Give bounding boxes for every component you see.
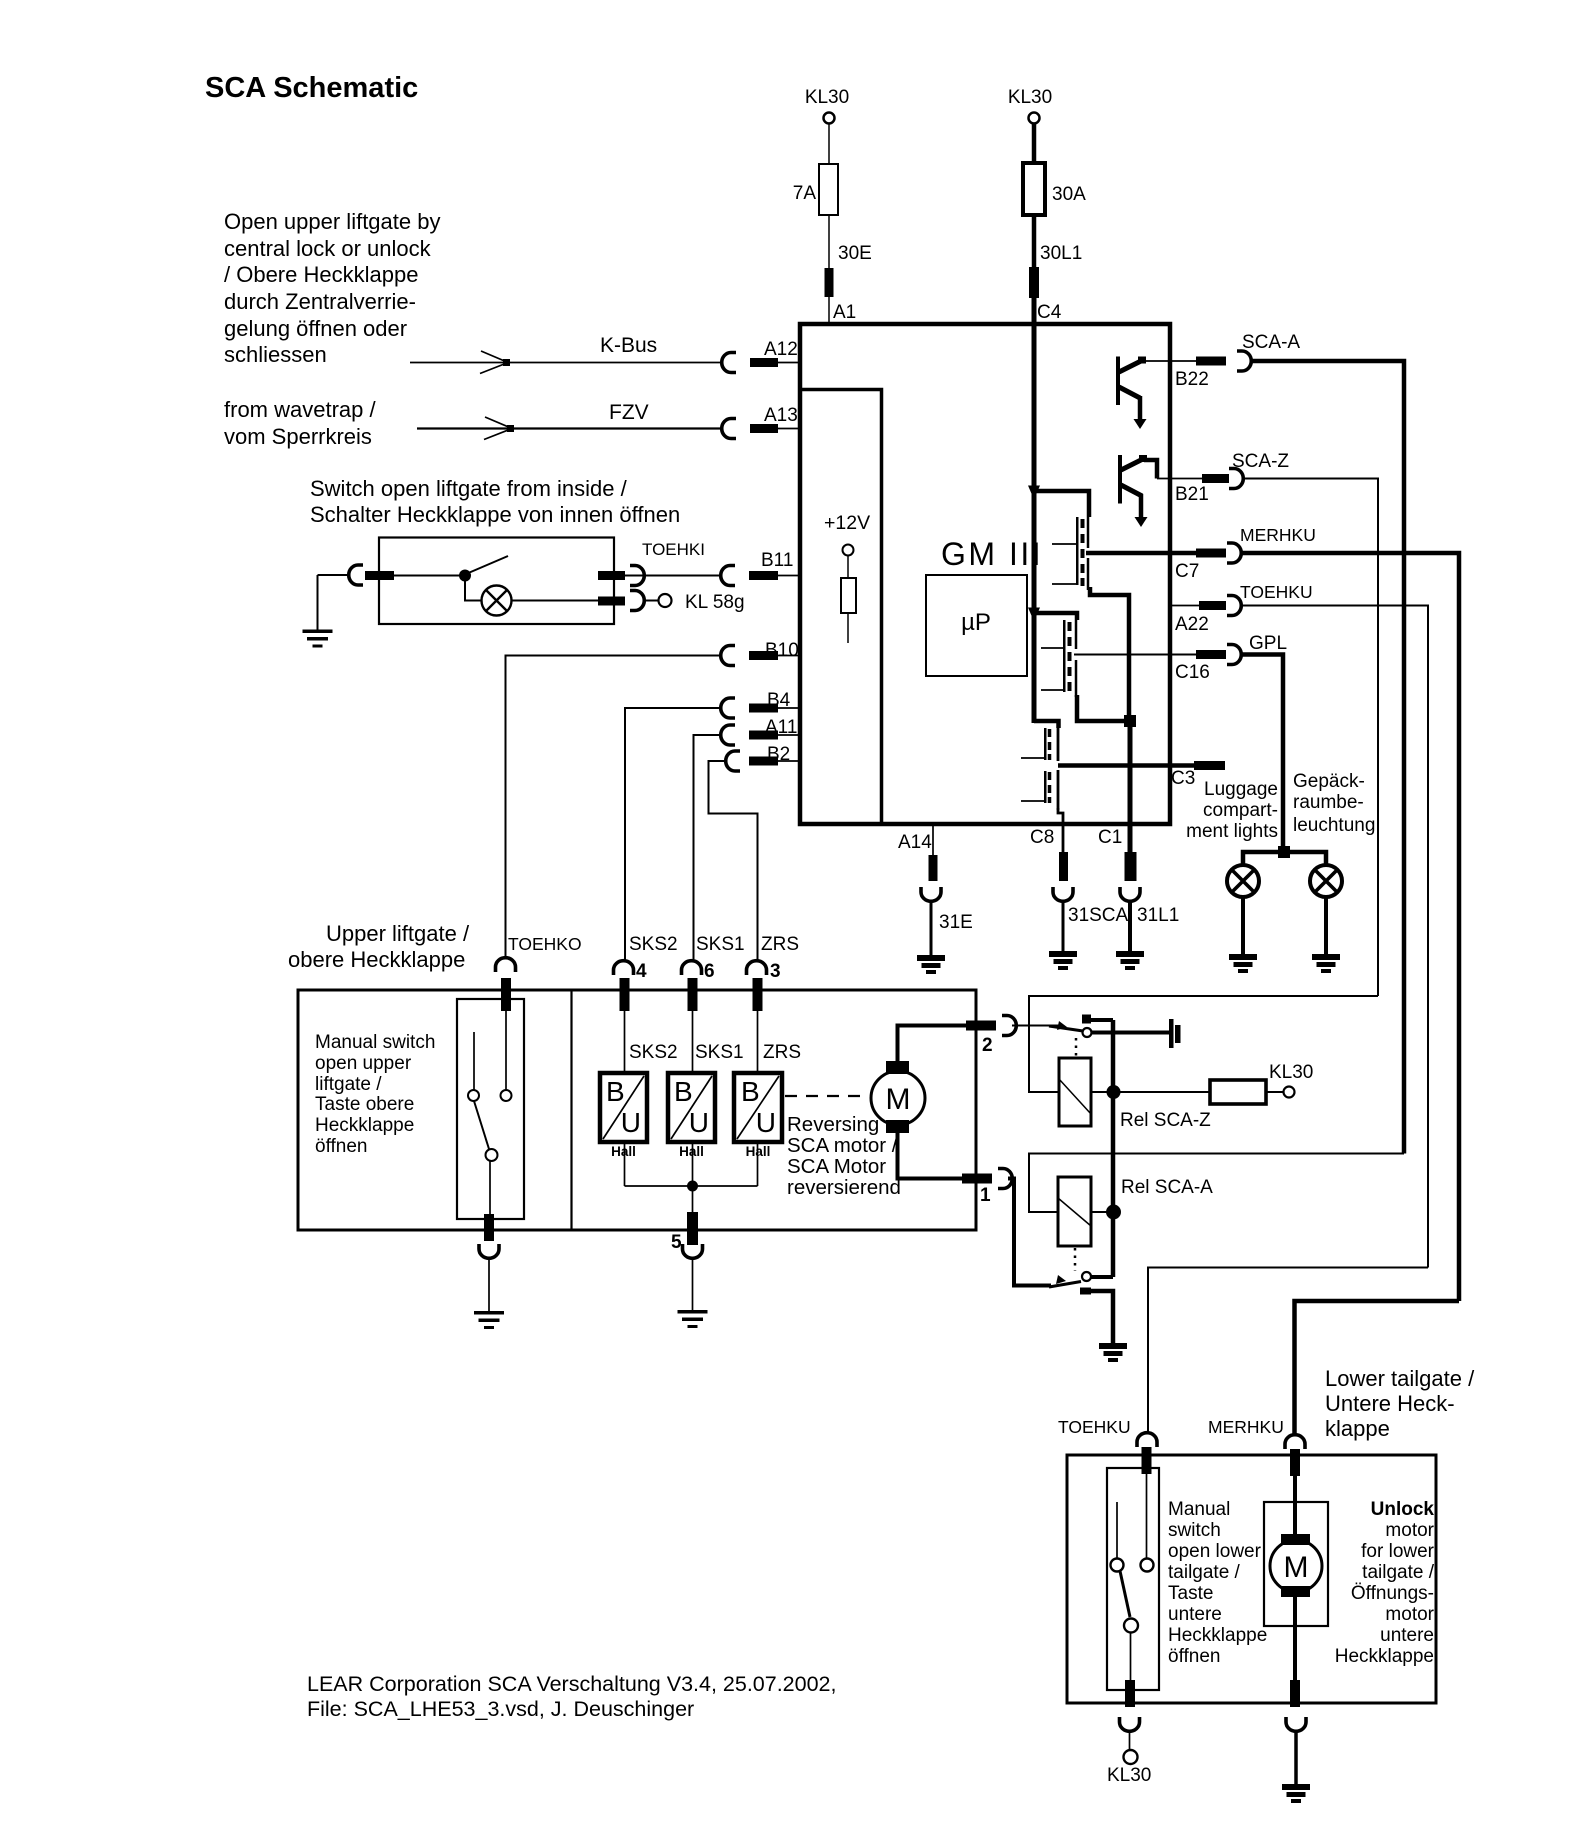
wire MERHKU (1241, 553, 1459, 1301)
pin 5 (692, 1186, 694, 1212)
svg-text:from wavetrap /: from wavetrap / (224, 397, 376, 422)
resistor R1 (841, 578, 856, 613)
svg-text:Reversing: Reversing (787, 1113, 879, 1136)
connector B11 (721, 566, 735, 586)
svg-text:SKS2: SKS2 (629, 934, 678, 955)
node (1106, 1205, 1121, 1220)
svg-text:U: U (621, 1107, 641, 1138)
wire GPL out (1074, 654, 1196, 656)
pin A22 / connector TOEHKU (1199, 601, 1226, 610)
svg-text:Rel SCA-A: Rel SCA-A (1121, 1177, 1213, 1198)
wire B4 to SKS2 (625, 708, 721, 961)
svg-text:obere Heckklappe: obere Heckklappe (288, 947, 465, 972)
connector under switch (479, 1244, 499, 1258)
svg-text:U: U (756, 1107, 776, 1138)
svg-text:MERHKU: MERHKU (1208, 1417, 1284, 1437)
wire K-Bus (410, 362, 722, 364)
svg-text:raumbe-: raumbe- (1293, 792, 1364, 813)
pin 2 (966, 1021, 996, 1031)
connector 31E (921, 887, 941, 901)
pin TOEHKI (598, 571, 625, 580)
svg-text:B: B (741, 1076, 760, 1107)
svg-text:öffnen: öffnen (315, 1136, 367, 1157)
svg-text:A1: A1 (833, 302, 856, 323)
svg-text:Taste: Taste (1168, 1583, 1213, 1604)
svg-text:öffnen: öffnen (1168, 1646, 1220, 1667)
wire B10 to TOEHKO (506, 656, 722, 958)
wire SCA-Z (1243, 479, 1378, 997)
wire coil K1 to bus (1091, 1091, 1113, 1093)
svg-text:A14: A14 (898, 832, 932, 853)
ground 31L1 (1128, 900, 1132, 951)
svg-text:30E: 30E (838, 243, 872, 264)
node (1107, 1085, 1121, 1099)
fuse KL30 (relay supply) (1210, 1080, 1266, 1104)
pin C4 (1029, 267, 1039, 298)
wire TOEHKU (1241, 606, 1428, 1268)
wire motor to pin (1293, 1597, 1297, 1680)
connector B2 (726, 751, 740, 771)
svg-text:B22: B22 (1175, 369, 1209, 390)
svg-text:LEAR Corporation SCA Verschalt: LEAR Corporation SCA Verschaltung V3.4, … (307, 1672, 836, 1696)
mosfet driver Q6 (C8) (1044, 771, 1047, 803)
connector 31L1 (1120, 887, 1140, 901)
connector 1 (998, 1169, 1012, 1189)
svg-text:Manual switch: Manual switch (315, 1032, 435, 1053)
svg-text:31SCA: 31SCA (1068, 905, 1129, 926)
svg-text:SCA-Z: SCA-Z (1232, 451, 1289, 472)
wire hall common bus (624, 1142, 626, 1186)
pin B22 / connector SCA-A (1196, 357, 1226, 366)
svg-text:klappe: klappe (1325, 1416, 1390, 1441)
svg-text:compart-: compart- (1203, 800, 1278, 821)
wire relay bus vertical (1111, 1020, 1116, 1277)
svg-text:B4: B4 (767, 690, 791, 711)
wire GPL (1241, 655, 1283, 847)
pin C7 / connector MERHKU (1196, 549, 1226, 558)
svg-text:ZRS: ZRS (763, 1042, 801, 1063)
transistor Q2 (B21) (1118, 455, 1122, 504)
svg-text:for lower: for lower (1361, 1541, 1435, 1562)
svg-text:+12V: +12V (824, 512, 870, 534)
svg-text:central lock or unlock: central lock or unlock (224, 236, 432, 261)
svg-text:Hall: Hall (611, 1144, 636, 1159)
svg-text:KL30: KL30 (1269, 1062, 1313, 1083)
manual switch box (457, 999, 524, 1219)
svg-text:SCA motor /: SCA motor / (787, 1134, 898, 1157)
svg-text:reversierend: reversierend (787, 1176, 901, 1199)
wire FZV (417, 427, 722, 429)
svg-text:switch: switch (1168, 1520, 1221, 1541)
connector B10 (721, 646, 735, 666)
dashed link ZRS to motor (785, 1095, 866, 1097)
ground lamp L2 (1241, 897, 1245, 954)
wire SCA-Z to coil K1 (1029, 996, 1378, 1092)
switch S1 blade (466, 556, 508, 574)
pin 1 (962, 1174, 992, 1184)
ground (switch circuit) (317, 575, 319, 630)
svg-text:KL30: KL30 (805, 87, 849, 108)
svg-text:SKS1: SKS1 (695, 1042, 744, 1063)
wire from connector 1 down (1008, 1179, 1051, 1286)
svg-text:Switch open liftgate from insi: Switch open liftgate from inside / (310, 476, 628, 501)
node junction arrow 1 (1028, 486, 1040, 500)
svg-text:open upper: open upper (315, 1053, 412, 1074)
fuse 30A (1023, 163, 1045, 215)
wire (318, 574, 350, 576)
svg-text:TOEHKU: TOEHKU (1058, 1417, 1131, 1437)
ground 31SCA (1062, 900, 1065, 951)
svg-text:motor: motor (1385, 1604, 1434, 1625)
svg-text:ZRS: ZRS (761, 934, 799, 955)
dotted actuator link K1 (1075, 1038, 1078, 1058)
transistor Q1 (B22) (1116, 357, 1120, 406)
wire MERHKU down leg (1295, 1301, 1460, 1434)
svg-text:Manual: Manual (1168, 1499, 1230, 1520)
svg-text:K-Bus: K-Bus (600, 334, 657, 357)
wire to lamps (1243, 852, 1326, 864)
node C1 junction (1124, 715, 1136, 727)
motor box (lower) (1264, 1502, 1328, 1626)
pin C16 / connector GPL (1196, 650, 1226, 659)
svg-text:C4: C4 (1037, 302, 1062, 323)
wire KL30 feed inside box (1032, 298, 1037, 723)
wire source down (1090, 587, 1129, 721)
motor M1 (reversing SCA motor) (871, 1071, 925, 1125)
wire C4 branch to lower driver (1034, 721, 1059, 728)
svg-text:30L1: 30L1 (1040, 243, 1082, 264)
pin KL58g (598, 597, 625, 606)
ground 5 (692, 1257, 694, 1310)
svg-text:A12: A12 (764, 339, 798, 360)
relay coil K1 (Rel SCA-Z) (1059, 1058, 1091, 1126)
wire motor top to pin 2 (898, 1026, 967, 1063)
svg-text:Rel SCA-Z: Rel SCA-Z (1120, 1110, 1211, 1131)
svg-text:SCA Schematic: SCA Schematic (205, 72, 418, 104)
fuse 7A (819, 164, 838, 215)
connector B4 (721, 698, 735, 718)
wire SCA-A (1251, 361, 1404, 1154)
svg-text:schliessen: schliessen (224, 342, 327, 367)
svg-text:A11: A11 (765, 717, 797, 738)
hall sensor SKS1 (668, 1073, 715, 1142)
connector motor ground (1286, 1717, 1306, 1731)
divider (570, 990, 572, 1230)
wire from connector 2 to relay contact (1012, 1025, 1061, 1027)
svg-text:Open upper liftgate by: Open upper liftgate by (224, 209, 440, 234)
svg-text:5: 5 (671, 1232, 682, 1253)
wire SCA-A to coil K2 (1029, 1154, 1404, 1213)
wire TOEHKU down leg (1148, 1268, 1428, 1433)
node bus junction (687, 1181, 698, 1192)
svg-text:SKS1: SKS1 (696, 934, 745, 955)
svg-text:M: M (1284, 1551, 1309, 1584)
lamp L3 (1310, 865, 1342, 897)
svg-text:tailgate /: tailgate / (1168, 1562, 1241, 1583)
relay K2 contact blade (1049, 1282, 1081, 1288)
hall sensor ZRS (734, 1073, 782, 1142)
svg-text:SCA Motor: SCA Motor (787, 1155, 886, 1178)
wire A11 to SKS1 (694, 735, 722, 961)
relay K1 contact blade (1049, 1026, 1083, 1031)
node lamp junction (1278, 846, 1290, 858)
net 30L1 (1032, 215, 1037, 267)
wire to B11 (644, 575, 721, 577)
svg-text:B2: B2 (767, 744, 790, 765)
svg-text:Heckklappe: Heckklappe (1168, 1625, 1267, 1646)
svg-text:gelung öffnen oder: gelung öffnen oder (224, 316, 407, 341)
arrow (484, 417, 512, 440)
svg-text:Hall: Hall (679, 1144, 704, 1159)
svg-text:GM III: GM III (941, 536, 1043, 572)
mosfet driver Q3 (MERHKU) (1076, 517, 1079, 585)
wire to fuse KL30 (1113, 1091, 1210, 1093)
hall sensor SKS2 (600, 1073, 647, 1142)
pin A1 (825, 268, 834, 297)
svg-text:KL30: KL30 (1008, 87, 1052, 108)
contact NC stub (1080, 1288, 1091, 1295)
svg-text:B11: B11 (761, 550, 793, 571)
svg-text:durch Zentralverrie-: durch Zentralverrie- (224, 289, 416, 314)
wire MERHKU pin to motor (1293, 1476, 1297, 1535)
svg-text:SCA-A: SCA-A (1242, 332, 1300, 353)
svg-text:4: 4 (636, 961, 647, 982)
wire source down to node (1077, 695, 1125, 721)
svg-text:Untere Heck-: Untere Heck- (1325, 1391, 1455, 1416)
svg-text:C16: C16 (1175, 662, 1210, 683)
wire coil K2 to bus (1091, 1211, 1113, 1213)
wire (828, 124, 830, 164)
terminator body connection (1169, 1019, 1174, 1048)
wire A22 lead (1171, 605, 1199, 607)
svg-text:leuchtung: leuchtung (1293, 815, 1375, 836)
pin B21 / connector SCA-Z (1202, 474, 1229, 483)
connector 31SCA (1053, 887, 1073, 901)
wire motor bottom to pin 1 (898, 1133, 963, 1179)
wire B2 to ZRS (709, 761, 758, 961)
svg-text:SKS2: SKS2 (629, 1042, 678, 1063)
inner supply box (800, 390, 882, 825)
svg-text:Unlock: Unlock (1371, 1499, 1435, 1520)
svg-text:File: SCA_LHE53_3.vsd, J. Deus: File: SCA_LHE53_3.vsd, J. Deuschinger (307, 1697, 694, 1721)
pin switch out (484, 1214, 494, 1241)
svg-text:Heckklappe: Heckklappe (315, 1115, 414, 1136)
dotted actuator link K2 (1074, 1248, 1077, 1271)
pin motor out (1290, 1680, 1300, 1707)
svg-text:U: U (689, 1107, 709, 1138)
wire collector to pin (1157, 478, 1202, 480)
svg-text:7A: 7A (793, 183, 817, 204)
svg-text:Lower tailgate /: Lower tailgate / (1325, 1366, 1475, 1391)
svg-text:liftgate /: liftgate / (315, 1074, 382, 1095)
svg-text:A22: A22 (1175, 614, 1209, 635)
switch S3 (1146, 1474, 1148, 1559)
connector A12 (722, 353, 736, 373)
ground relay (1099, 1343, 1127, 1362)
svg-text:Upper liftgate /: Upper liftgate / (326, 921, 470, 946)
svg-text:/ Obere Heckklappe: / Obere Heckklappe (224, 262, 418, 287)
svg-text:KL30: KL30 (1107, 1765, 1151, 1786)
GM III control unit box (800, 324, 1170, 824)
wire C8 lead (1058, 808, 1063, 852)
wire (1032, 124, 1037, 165)
svg-text:FZV: FZV (609, 401, 649, 424)
svg-text:31L1: 31L1 (1137, 905, 1179, 926)
wire (598, 575, 700, 577)
pin C3 (1194, 761, 1225, 770)
svg-text:µP: µP (961, 609, 991, 636)
pin lower switch (1125, 1680, 1135, 1707)
svg-text:B: B (674, 1076, 693, 1107)
lower tailgate box (1067, 1455, 1436, 1703)
svg-text:Luggage: Luggage (1204, 779, 1278, 800)
mosfet driver Q4 (GPL) (1063, 620, 1066, 692)
connector TOEHKI left (349, 565, 363, 585)
svg-text:MERHKU: MERHKU (1240, 525, 1316, 545)
svg-text:C7: C7 (1175, 561, 1199, 582)
ground switch (488, 1257, 490, 1311)
arrow (480, 351, 508, 374)
connector 2 (1002, 1016, 1016, 1036)
svg-text:TOEHKU: TOEHKU (1240, 582, 1313, 602)
wire MERHKU out (1086, 551, 1196, 556)
ground lamp L3 (1324, 897, 1328, 954)
wire C3 out (1058, 763, 1194, 768)
wire (394, 575, 460, 577)
wire (828, 297, 830, 324)
switch S2 (505, 1011, 507, 1090)
svg-text:M: M (886, 1083, 911, 1116)
connector TOEHKI (630, 566, 644, 586)
svg-text:Schalter Heckklappe von innen: Schalter Heckklappe von innen öffnen (310, 502, 680, 527)
switch box (open liftgate from inside) (379, 538, 614, 625)
motor M2 (unlock motor) (1270, 1540, 1322, 1592)
ground lower motor (1294, 1730, 1298, 1784)
ground 31E (930, 900, 933, 955)
wire collector to pin (1142, 360, 1196, 362)
svg-text:2: 2 (982, 1035, 993, 1056)
connector 5 (683, 1244, 703, 1258)
mosfet driver Q5 (C3 / 31SCA) (1044, 728, 1047, 760)
svg-text:untere: untere (1168, 1604, 1222, 1625)
svg-text:tailgate /: tailgate / (1362, 1562, 1435, 1583)
wire to ground (1090, 1291, 1113, 1343)
connector A13 (722, 419, 736, 439)
svg-text:Öffnungs-: Öffnungs- (1351, 1583, 1434, 1604)
relay coil K2 (Rel SCA-A) (1058, 1177, 1091, 1246)
wire contact to bus end (1091, 1275, 1113, 1279)
svg-text:Heckklappe: Heckklappe (1335, 1646, 1434, 1667)
connector KL 58g (630, 591, 644, 611)
svg-text:TOEHKO: TOEHKO (508, 934, 582, 954)
svg-text:TOEHKI: TOEHKI (642, 540, 705, 559)
svg-text:1: 1 (980, 1185, 991, 1206)
wire (512, 600, 599, 602)
manual switch box (lower) (1107, 1468, 1159, 1690)
node (switch junction) (459, 570, 471, 582)
net 30E (828, 215, 830, 268)
wire to driver 2 (1034, 613, 1077, 620)
connector KL30 lower (1120, 1717, 1140, 1731)
svg-text:C1: C1 (1098, 827, 1122, 848)
svg-text:30A: 30A (1052, 184, 1086, 205)
lamp L1 feed (465, 580, 481, 601)
node junction arrow 2 (1028, 608, 1040, 622)
svg-text:GPL: GPL (1249, 633, 1287, 654)
upper liftgate box (298, 990, 976, 1230)
svg-text:31E: 31E (939, 912, 973, 933)
svg-text:ment lights: ment lights (1186, 821, 1278, 842)
svg-text:motor: motor (1385, 1520, 1434, 1541)
svg-text:Taste obere: Taste obere (315, 1094, 414, 1115)
svg-text:untere: untere (1380, 1625, 1434, 1646)
wire contact to bus (1090, 1018, 1113, 1022)
svg-text:B10: B10 (765, 640, 799, 661)
svg-text:3: 3 (770, 961, 781, 982)
lamp L2 (1227, 865, 1259, 897)
svg-text:open lower: open lower (1168, 1541, 1262, 1562)
connector A11 (721, 725, 735, 745)
svg-text:C3: C3 (1171, 768, 1195, 789)
wire contact to body terminator (1091, 1031, 1169, 1035)
lamp L1 (482, 586, 512, 616)
svg-text:vom Sperrkreis: vom Sperrkreis (224, 424, 372, 449)
svg-text:B21: B21 (1175, 484, 1209, 505)
wire to driver 1 (1034, 491, 1089, 517)
svg-text:Gepäck-: Gepäck- (1293, 771, 1365, 792)
svg-text:B: B (606, 1076, 625, 1107)
svg-text:C8: C8 (1030, 827, 1054, 848)
svg-text:A13: A13 (764, 405, 798, 426)
svg-text:KL 58g: KL 58g (685, 592, 745, 613)
microprocessor uP (926, 575, 1027, 676)
svg-text:6: 6 (704, 961, 715, 982)
